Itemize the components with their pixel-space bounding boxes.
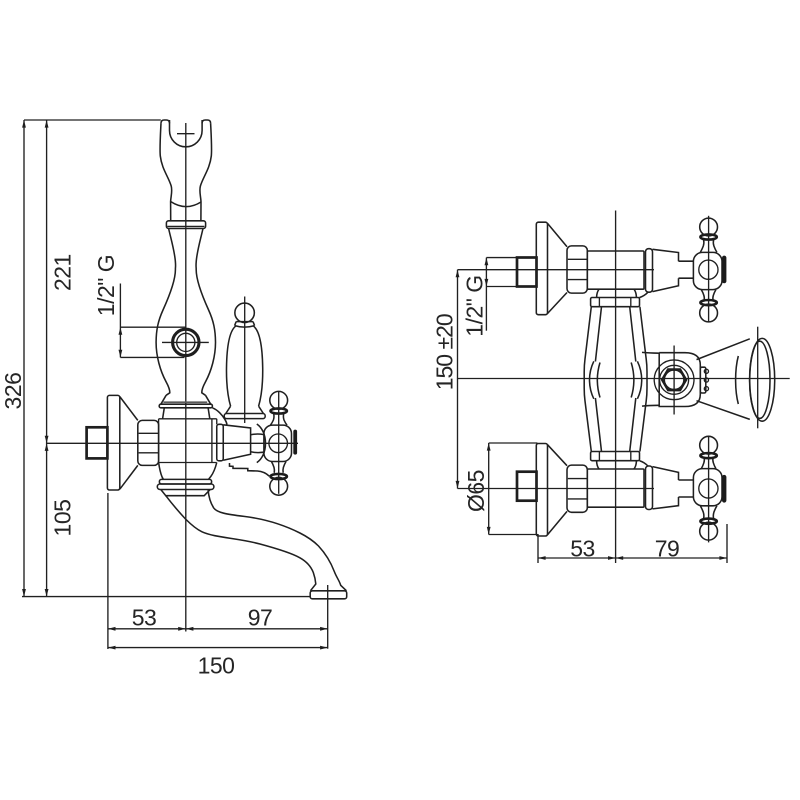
outlet circle inner bbox=[177, 333, 195, 351]
1/2 G upper leader bbox=[120, 326, 185, 328]
base bell ring bbox=[157, 484, 214, 490]
cross handle outer ball (top) bbox=[700, 218, 718, 236]
cross handle top neck (left view) bbox=[270, 413, 287, 425]
column left ball arc outer bbox=[589, 361, 593, 399]
lever body bbox=[226, 326, 262, 406]
valve bonnet dome behind handle bbox=[257, 424, 266, 463]
diverter hub (right view) bbox=[659, 353, 700, 407]
bottom baseline extension bbox=[22, 596, 310, 598]
dimension line 150 +-20 bbox=[457, 270, 459, 489]
vase right edge bbox=[196, 229, 215, 396]
column centerline (right view) bbox=[615, 211, 617, 564]
svg-text:150: 150 bbox=[198, 653, 235, 679]
dia 65 lower leader bbox=[489, 534, 538, 536]
spout bottom edge bbox=[166, 496, 316, 591]
flange plate (top) bbox=[536, 222, 547, 315]
valve block left edge bbox=[158, 419, 160, 463]
svg-text:53: 53 bbox=[132, 605, 157, 631]
column inner right line bbox=[630, 307, 636, 452]
fillet skirt to diverter cone bbox=[212, 408, 227, 425]
1/2 G lower leader bbox=[120, 356, 184, 358]
dia 65 dimension bbox=[488, 443, 490, 535]
extension line spout outlet bbox=[327, 585, 329, 649]
flange cone bottom (left view) bbox=[120, 465, 138, 489]
valve block inner joint bbox=[211, 419, 213, 463]
spout top edge bbox=[208, 490, 346, 591]
base bell bottom line bbox=[166, 495, 204, 497]
body horizontal centerline (left view) bbox=[47, 442, 298, 444]
cross handle far arm dark (left view) bbox=[293, 430, 297, 455]
body to column fillets (top) bbox=[597, 289, 637, 297]
diverter pedestal steps bbox=[230, 463, 270, 476]
svg-text:53: 53 bbox=[570, 536, 595, 562]
bonnet cone (top) bbox=[653, 249, 679, 291]
cross handle top ball (left view) bbox=[270, 391, 288, 409]
top inlet centerline bbox=[458, 269, 655, 271]
skirt inner line bbox=[163, 401, 207, 403]
handle stem (bottom) bbox=[679, 480, 694, 497]
cross handle inner collar dark (top) bbox=[700, 300, 716, 305]
diverter ring bbox=[217, 424, 224, 461]
cross handle bottom collar dark (left view) bbox=[271, 474, 287, 479]
cross handle hub circle (top) bbox=[699, 260, 718, 279]
cross handle inner neck (top) bbox=[701, 290, 716, 301]
lever foot bbox=[226, 406, 264, 413]
diverter hub hexagon bbox=[662, 369, 686, 390]
skirt lip bbox=[159, 404, 212, 408]
svg-text:1/2" G: 1/2" G bbox=[93, 255, 119, 316]
column outer right edge bbox=[640, 307, 647, 452]
cross handle hub (top) bbox=[693, 252, 722, 289]
extension line flange face (right view) bbox=[537, 534, 539, 563]
flange cone (bottom) bbox=[548, 445, 568, 535]
diverter tab bbox=[700, 367, 706, 393]
column inner left line bbox=[595, 307, 601, 452]
column to diverter hub fillets bbox=[642, 352, 659, 406]
cross handle bottom ball (left view) bbox=[270, 477, 288, 495]
extension line flange bbox=[107, 493, 109, 649]
diverter hub circle inner bbox=[664, 370, 683, 389]
1/2 G lower leader (right view) bbox=[486, 286, 536, 288]
dimension line 326 (left, vertical) bbox=[23, 120, 25, 597]
skirt lower trapezoid left bbox=[163, 408, 165, 419]
cross handle far arm dark (bottom) bbox=[722, 475, 726, 503]
diverter bell cone (right view) bbox=[697, 339, 750, 420]
column right ball arc outer bbox=[637, 361, 641, 399]
wall nipple bold (top) bbox=[517, 258, 537, 287]
block bottom left corner to bell bbox=[159, 463, 164, 480]
cross handle centerline (bottom) bbox=[708, 436, 710, 543]
valve block top edge bbox=[159, 418, 217, 420]
stem cross arc bbox=[171, 202, 201, 207]
diverter bell cap centerline bbox=[757, 327, 759, 429]
cross handle outer neck (bottom) bbox=[700, 506, 717, 519]
svg-text:150 ±20: 150 ±20 bbox=[432, 314, 458, 390]
cross handle outer ball (bottom) bbox=[700, 522, 718, 540]
svg-text:221: 221 bbox=[50, 254, 76, 291]
lever ball bbox=[235, 303, 255, 323]
cradle cross tick bbox=[177, 133, 195, 135]
cross handle centerline (top) bbox=[708, 216, 710, 323]
handle stem (top) bbox=[679, 261, 694, 278]
diverter bell inner arc bbox=[736, 356, 739, 404]
cross handle top collar dark (left view) bbox=[271, 408, 287, 413]
cross handle outer collar dark (bottom) bbox=[700, 519, 716, 524]
hex nut (left view) bbox=[138, 420, 159, 465]
column outer left edge bbox=[584, 307, 591, 452]
bonnet cone (bottom) bbox=[653, 467, 679, 509]
outlet circle outer (1/2 G port) bbox=[173, 329, 199, 355]
valve block bottom edge bbox=[159, 462, 217, 464]
hex nut (top) bbox=[567, 246, 587, 293]
1/2 G upper leader (right view) bbox=[486, 257, 517, 259]
block bottom right corner to bell bbox=[209, 463, 217, 480]
bonnet ring (top) bbox=[646, 249, 653, 293]
column centerline (left view) bbox=[185, 123, 187, 632]
cross handle inner ball (bottom) bbox=[700, 436, 718, 454]
lever collar bbox=[235, 322, 255, 328]
dimension line 221/105 (vertical) bbox=[46, 120, 48, 597]
cross handle neck (left view) bbox=[251, 434, 264, 453]
flange plate (bottom) bbox=[536, 444, 547, 537]
fork right prong top bbox=[202, 120, 211, 123]
column left ball arc inner bbox=[597, 363, 600, 398]
cross handle outer neck (top) bbox=[700, 240, 717, 253]
1/2 G dimension line (left view) bbox=[119, 284, 121, 358]
base bell bar bbox=[159, 479, 211, 484]
wall nipple bold (bottom) bbox=[517, 472, 537, 501]
stem collar bbox=[166, 221, 205, 229]
cross handle inner collar dark (bottom) bbox=[700, 453, 716, 458]
svg-text:326: 326 bbox=[0, 373, 26, 410]
dimension line 150 bbox=[108, 647, 328, 649]
cross handle inner neck (bottom) bbox=[701, 458, 716, 469]
wall nipple bold (left view) bbox=[87, 427, 108, 458]
bottom inlet centerline bbox=[458, 488, 655, 490]
skirt lower trapezoid right bbox=[208, 408, 210, 419]
diverter hub centerline bbox=[673, 346, 675, 415]
svg-text:97: 97 bbox=[248, 605, 273, 631]
column collar (bottom) bbox=[591, 452, 640, 461]
outlet circle centerline bbox=[162, 341, 209, 343]
skirt left flare bbox=[161, 395, 166, 404]
cross handle bottom neck (left view) bbox=[271, 462, 286, 473]
skirt right flare bbox=[206, 395, 211, 404]
fork inner U bbox=[170, 120, 203, 147]
diverter bell cap inner ellipse bbox=[750, 341, 770, 418]
lever centerline bbox=[244, 297, 246, 424]
dimension line 53/97 bbox=[108, 628, 328, 630]
cross handle hub (left view) bbox=[264, 425, 292, 461]
diverter cone bbox=[223, 425, 250, 460]
bonnet ring (bottom) bbox=[646, 466, 653, 510]
middle spout centerline bbox=[458, 378, 790, 380]
valve body (top) bbox=[587, 251, 644, 289]
svg-text:1/2" G: 1/2" G bbox=[462, 275, 488, 336]
column collar (top) bbox=[591, 298, 640, 307]
flange cone (top) bbox=[548, 223, 568, 313]
top extension line bbox=[24, 119, 161, 121]
dia 65 upper leader bbox=[489, 442, 538, 444]
hex nut (bottom) bbox=[567, 465, 587, 512]
bonnet ring to collar fillet (bottom) bbox=[640, 461, 649, 466]
fork outer left edge bbox=[160, 123, 172, 221]
diverter hub circle outer bbox=[654, 360, 694, 400]
diverter bell cap outer ellipse bbox=[750, 338, 775, 421]
fork left prong top bbox=[161, 120, 170, 123]
flange cone top (left view) bbox=[120, 397, 138, 421]
svg-text:79: 79 bbox=[655, 536, 680, 562]
flange plate (left view) bbox=[107, 395, 119, 490]
fork outer right edge bbox=[200, 123, 212, 221]
cross handle far arm dark (top) bbox=[722, 256, 726, 284]
valve body (bottom) bbox=[587, 469, 644, 507]
1/2 G dimension (right view) bbox=[485, 258, 487, 331]
svg-text:105: 105 bbox=[50, 500, 76, 537]
valve block right edge bbox=[216, 419, 218, 425]
diverter hub circle mid bbox=[660, 365, 689, 394]
cross handle hub (bottom) bbox=[693, 469, 722, 506]
extension line handle end (right view) bbox=[726, 524, 728, 563]
svg-text:Ø65: Ø65 bbox=[463, 470, 489, 512]
bonnet ring to collar fillet (top) bbox=[640, 292, 649, 297]
dimension line 53/79 (right view) bbox=[538, 557, 727, 559]
cross handle centerline (left view) bbox=[278, 392, 280, 494]
spout foot bbox=[310, 591, 347, 599]
cross handle hub circle (bottom) bbox=[699, 479, 718, 498]
cross handle outer collar dark (top) bbox=[700, 234, 716, 239]
cross handle inner ball (top) bbox=[700, 304, 718, 322]
base bell flare bbox=[161, 490, 210, 496]
column right ball arc inner bbox=[631, 363, 634, 398]
body to column fillets (bottom) bbox=[597, 461, 637, 469]
vase left edge bbox=[156, 229, 175, 396]
cross handle hub circle (left view) bbox=[269, 434, 288, 453]
